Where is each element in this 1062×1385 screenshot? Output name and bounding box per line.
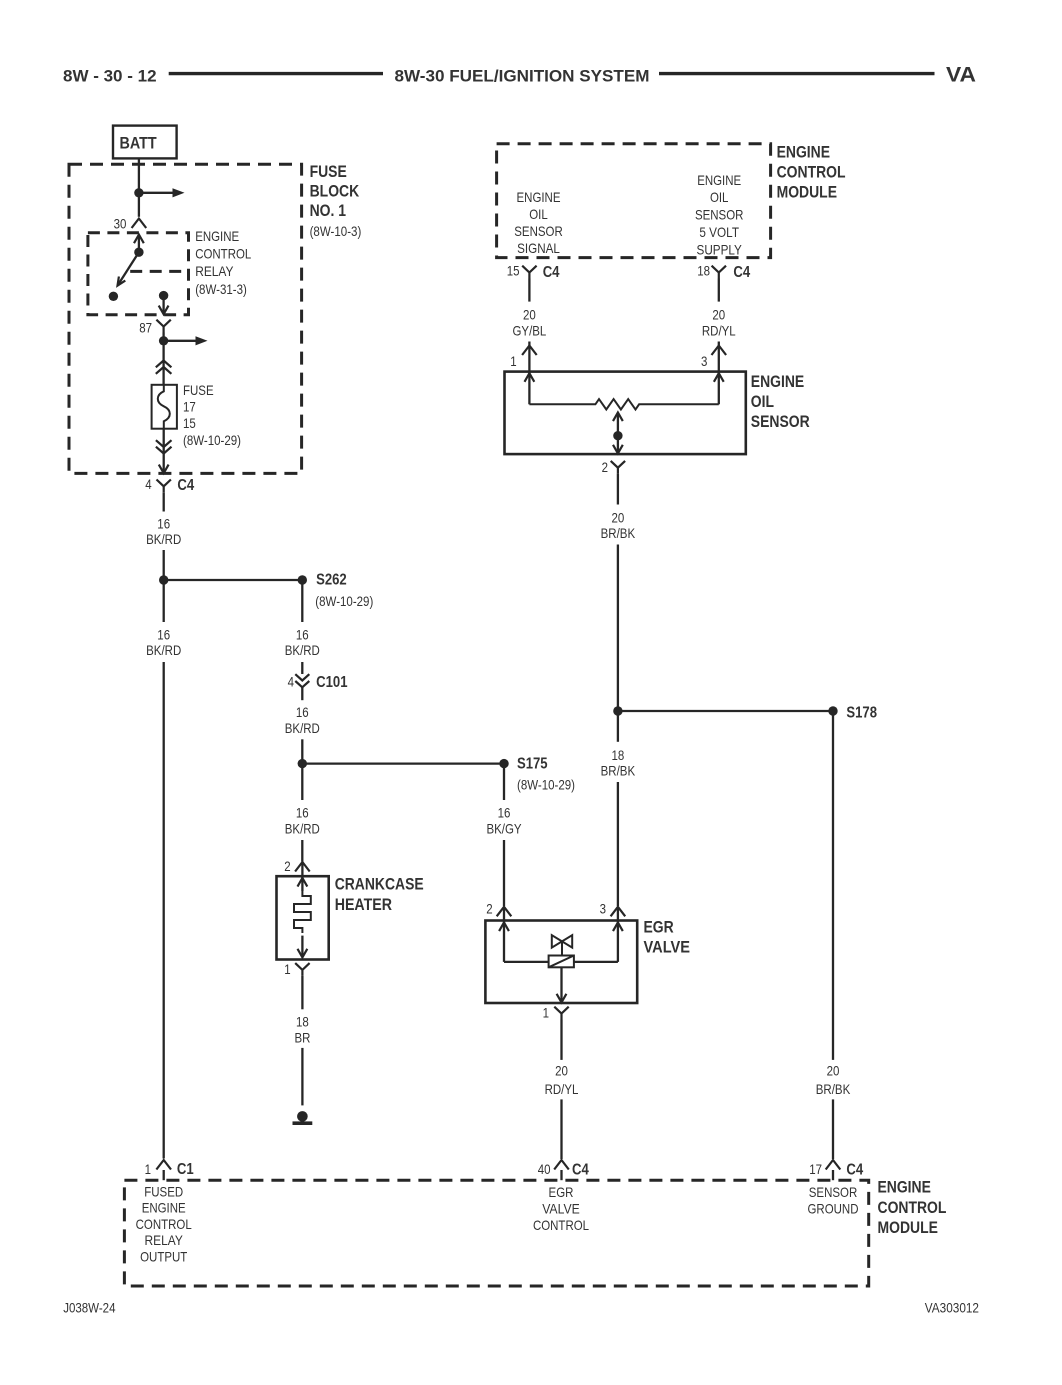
svg-text:C4: C4 [543,264,560,281]
splice S175 right dot [499,759,508,768]
svg-text:(8W-10-29): (8W-10-29) [183,432,241,448]
wire below S178 junction [617,715,619,742]
in-line connector double chevron above fuse [156,361,172,374]
svg-text:20: 20 [612,510,625,526]
wire to ground [301,1048,303,1106]
splice S178 left dot [613,706,622,715]
branch arrow right from BATT feed [139,192,173,194]
engine control module dashed box bottom [124,1180,868,1286]
wire S175 to EGR b [503,840,505,906]
svg-text:16: 16 [296,704,309,720]
wire to crankcase heater [301,840,303,862]
svg-text:CONTROL: CONTROL [878,1198,947,1217]
svg-text:1: 1 [510,353,517,369]
relay switch arm (diagonal) [118,252,138,284]
oil sensor pin3 entry arrow [718,372,720,405]
in-line connector double chevron below fuse [156,440,172,453]
svg-text:18: 18 [697,263,710,279]
svg-text:C4: C4 [572,1162,589,1179]
svg-text:OIL: OIL [529,206,548,222]
svg-text:ENGINE: ENGINE [751,372,804,391]
svg-text:15: 15 [507,263,520,279]
svg-text:EGR: EGR [549,1184,574,1200]
connector chevron heater pin 2 [295,862,310,872]
arrow exiting fuse block [159,465,169,474]
wire to S178 junction [617,545,619,708]
svg-text:J038W-24: J038W-24 [63,1300,115,1316]
relay output arrow down [162,296,164,314]
stem into heater [301,862,303,876]
svg-text:RD/YL: RD/YL [702,323,736,339]
svg-text:16: 16 [296,805,309,821]
connector Y oil sensor pin 2 [611,461,625,474]
oil sensor pin1 entry arrow [528,372,530,405]
connector C4 cavity 15 Y [522,266,536,279]
svg-text:20: 20 [712,307,725,323]
wire 87 to fuse [162,333,164,385]
junction at pin 87 [159,336,168,345]
svg-text:SENSOR: SENSOR [809,1184,858,1200]
connector Y heater pin 1 [295,963,309,976]
branch arrow right from pin 87 [164,340,196,342]
stem into ECM (17) [832,1170,834,1180]
svg-text:(8W-10-29): (8W-10-29) [315,593,373,609]
svg-text:VALVE: VALVE [542,1200,580,1216]
svg-text:CONTROL: CONTROL [777,163,846,182]
wire S178 to sensor ground [832,715,834,1060]
wire C4 down [163,492,165,511]
wire to EGR pin 3 [617,782,619,906]
stem into ECM (1) [163,1170,165,1180]
svg-text:ENGINE: ENGINE [878,1178,931,1197]
svg-text:S178: S178 [846,705,877,722]
stem into ECM (40) [560,1170,562,1180]
svg-text:C4: C4 [846,1162,863,1179]
wiper junction dot [613,431,622,440]
stem into EGR right [617,907,619,921]
svg-text:15: 15 [183,415,196,431]
EGR output arrow down [560,967,562,1001]
connector chevron oil sensor pin 3 [712,346,727,356]
svg-text:RD/YL: RD/YL [545,1081,579,1097]
svg-text:BR/BK: BR/BK [601,525,636,541]
svg-text:2: 2 [486,901,493,917]
connector Y EGR pin 1 [554,1007,568,1020]
svg-text:3: 3 [600,901,607,917]
EGR pin3 entry arrow [617,921,619,962]
svg-text:CONTROL: CONTROL [136,1216,192,1232]
engine control relay dashed box [88,233,189,315]
relay output contact dot [159,291,168,300]
connector chevron C4 cavity 40 [554,1160,569,1170]
svg-text:30: 30 [114,216,127,232]
potentiometer wiper [617,414,619,455]
svg-text:1: 1 [543,1005,550,1021]
heater element [294,891,311,933]
svg-text:SENSOR: SENSOR [695,207,744,223]
svg-text:OUTPUT: OUTPUT [140,1248,188,1264]
splice S175 left dot [298,759,307,768]
svg-text:ENGINE: ENGINE [777,143,830,162]
wire S175 horizontal [302,762,504,764]
svg-text:17: 17 [183,398,196,414]
svg-text:SENSOR: SENSOR [514,223,563,239]
heater entry arrow [301,876,303,891]
svg-text:17: 17 [809,1161,822,1177]
svg-text:8W - 30 - 12: 8W - 30 - 12 [63,66,157,85]
svg-text:8W-30 FUEL/IGNITION SYSTEM: 8W-30 FUEL/IGNITION SYSTEM [395,66,650,85]
EGR solenoid box [549,956,574,968]
svg-text:ENGINE: ENGINE [195,228,239,244]
svg-text:VA303012: VA303012 [925,1300,979,1316]
svg-text:16: 16 [157,516,170,532]
svg-text:RELAY: RELAY [145,1232,184,1248]
EGR valve bowtie symbol [552,935,572,947]
svg-text:CONTROL: CONTROL [533,1217,589,1233]
svg-text:GY/BL: GY/BL [513,323,547,339]
svg-text:SENSOR: SENSOR [751,412,810,431]
wire oil sensor down [617,474,619,505]
svg-text:18: 18 [612,747,625,763]
svg-text:20: 20 [827,1063,840,1079]
junction at BATT feed [134,188,143,197]
svg-text:4: 4 [145,476,152,492]
wire to oil sensor pin 3 [718,342,720,372]
svg-text:S175: S175 [517,756,548,773]
C101 stem [301,687,303,700]
svg-text:C4: C4 [733,264,750,281]
svg-text:EGR: EGR [644,918,674,937]
wire S175 to EGR a [503,768,505,800]
header rule right [659,72,935,75]
svg-text:40: 40 [538,1161,551,1177]
wire to oil sensor pin 1 [528,342,530,372]
svg-text:16: 16 [498,805,511,821]
svg-text:2: 2 [284,858,291,874]
svg-text:C1: C1 [177,1161,194,1178]
svg-text:ENGINE: ENGINE [142,1200,186,1216]
svg-text:GROUND: GROUND [808,1200,859,1216]
splice S262 left dot [159,575,168,584]
wire to S175 [301,739,303,759]
wire BATT to relay terminal 30 [138,158,140,216]
wire to S262 [163,550,165,622]
fuse 17 box [152,385,177,429]
connector C4 cavity 18 Y [712,266,726,279]
splice S178 right dot [828,706,837,715]
svg-text:BK/RD: BK/RD [285,720,320,736]
svg-text:(8W-10-3): (8W-10-3) [310,223,362,239]
connector terminal 87 Y [156,320,170,333]
svg-text:16: 16 [296,627,309,643]
wire 15 down [528,279,530,302]
stem into EGR left [503,907,505,921]
svg-text:FUSED: FUSED [144,1184,183,1200]
engine oil sensor box [505,372,746,455]
connector chevron oil sensor pin 1 [522,346,537,356]
svg-text:MODULE: MODULE [777,183,837,202]
relay inner dashed divider [130,270,188,273]
wire S262 down [301,580,303,622]
svg-text:(8W-31-3): (8W-31-3) [195,281,247,297]
svg-text:ENGINE: ENGINE [517,189,561,205]
svg-text:2: 2 [602,459,609,475]
svg-text:4: 4 [288,674,295,690]
svg-text:MODULE: MODULE [878,1218,938,1237]
heater exit arrow [301,936,303,956]
svg-text:CONTROL: CONTROL [195,246,251,262]
relay NO contact dot left [109,292,118,301]
wire 18 down [718,279,720,302]
svg-text:5 VOLT: 5 VOLT [699,224,739,240]
svg-text:FUSE: FUSE [310,162,347,181]
svg-text:18: 18 [296,1014,309,1030]
wire S178 horizontal [618,710,833,712]
svg-text:NO. 1: NO. 1 [310,201,346,220]
ground G100 [297,1111,308,1122]
svg-text:BK/RD: BK/RD [146,642,181,658]
svg-text:S262: S262 [316,572,347,589]
connector C101 double chevron [295,674,309,687]
EGR solenoid rail [504,961,549,963]
svg-text:BATT: BATT [120,134,158,153]
header rule left [169,72,383,75]
svg-text:1: 1 [284,961,291,977]
svg-text:SUPPLY: SUPPLY [697,241,743,257]
crankcase heater box [277,876,329,959]
svg-text:RELAY: RELAY [195,263,234,279]
svg-text:3: 3 [701,353,708,369]
engine control module dashed box top [497,144,771,258]
svg-text:(8W-10-29): (8W-10-29) [517,777,575,793]
wire S262 horizontal [164,579,303,581]
fuse element S-curve [158,385,170,429]
potentiometer resistor element [529,399,718,409]
wire to C101 [301,662,303,674]
svg-text:16: 16 [157,627,170,643]
svg-text:BR/BK: BR/BK [601,763,636,779]
connector chevron C4 cavity 17 [826,1160,841,1170]
long wire left branch to C1 [163,662,165,1159]
svg-text:SIGNAL: SIGNAL [517,240,560,256]
svg-text:BK/RD: BK/RD [146,531,181,547]
svg-text:OIL: OIL [710,189,729,205]
svg-text:BR: BR [294,1030,310,1046]
svg-text:FUSE: FUSE [183,382,214,398]
svg-text:CRANKCASE: CRANKCASE [335,875,424,894]
svg-text:20: 20 [523,307,536,323]
relay common pivot dot [134,248,143,257]
svg-text:BR/BK: BR/BK [816,1081,851,1097]
wire S175 down a [301,768,303,800]
EGR valve stem [561,942,563,956]
svg-text:1: 1 [145,1161,152,1177]
connector C4 cavity 4 Y [157,480,171,493]
wire heater to ground [301,976,303,1009]
wire to 17 C4 [832,1099,834,1159]
svg-text:87: 87 [139,320,152,336]
EGR valve box [485,921,637,1004]
EGR pin2 entry arrow [503,921,505,962]
svg-text:20: 20 [555,1063,568,1079]
svg-text:BK/GY: BK/GY [486,821,522,837]
svg-text:VA: VA [946,64,976,87]
svg-text:C4: C4 [177,477,194,494]
svg-text:HEATER: HEATER [335,895,392,914]
svg-text:VALVE: VALVE [644,938,691,957]
fuse block no.1 dashed outline [69,164,302,473]
svg-text:BLOCK: BLOCK [310,181,360,200]
connector chevron EGR pin 2 [497,907,512,917]
connector chevron EGR pin 3 [611,907,626,917]
svg-text:ENGINE: ENGINE [697,172,741,188]
splice S262 right dot [298,575,307,584]
connector terminal 30 chevron [132,219,147,229]
svg-text:BK/RD: BK/RD [285,642,320,658]
battery feed box BATT [113,126,177,159]
wire fuse to C4 [163,429,165,472]
svg-text:BK/RD: BK/RD [285,821,320,837]
wire to 40 C4 [560,1099,562,1159]
connector chevron C1 cavity 1 [156,1160,171,1170]
wire EGR to C4 [560,1020,562,1060]
relay common terminal arrow up [138,235,140,252]
svg-text:OIL: OIL [751,392,774,411]
svg-text:C101: C101 [316,674,347,691]
